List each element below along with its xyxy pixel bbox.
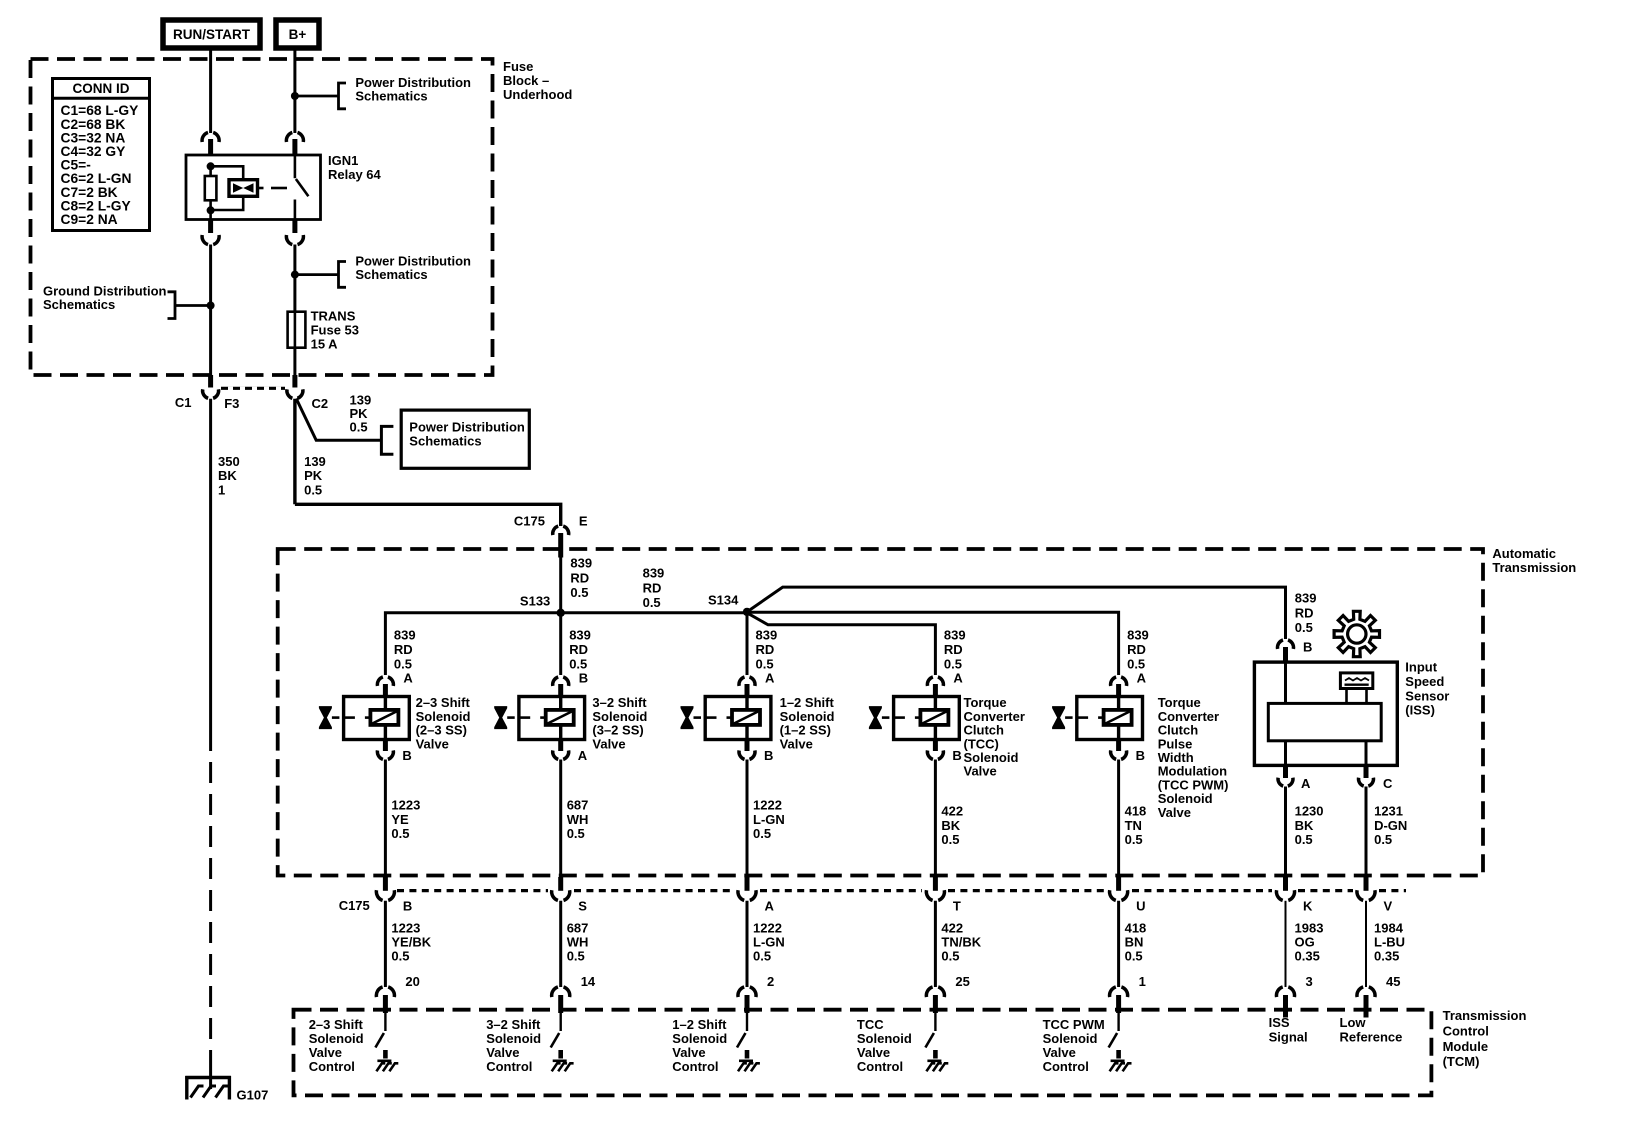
svg-text:CONN ID: CONN ID [73,81,130,96]
valve symbol 3-2 shift solenoid valve [519,697,585,740]
svg-text:B: B [403,898,412,913]
svg-text:RD: RD [643,580,662,595]
svg-text:Input: Input [1405,660,1437,675]
wire into TCM pin 20 [384,901,387,987]
reference bracket power distribution 2 [339,262,347,288]
node ground distribution tap [207,302,215,310]
svg-text:Valve: Valve [309,1045,342,1060]
connector TCM pin 20 [376,987,382,997]
svg-text:Underhood: Underhood [503,87,572,102]
svg-text:0.5: 0.5 [569,657,587,672]
svg-text:C: C [1383,776,1393,791]
wire solenoid feed bus [385,613,747,675]
svg-text:Solenoid: Solenoid [309,1031,364,1046]
svg-text:418: 418 [1125,804,1147,819]
svg-text:Valve: Valve [780,736,813,751]
gear icon [1334,611,1379,656]
terminal B+ [276,20,319,48]
wire branch to power distribution box [296,399,381,441]
svg-text:BK: BK [941,818,960,833]
wire B inside ISS [1284,662,1287,703]
connector pin A (top) of TCC PWM solenoid valve [1111,677,1117,686]
connector TCM pin 25 [926,987,932,997]
wire S134 down to 1-2 solenoid [746,613,749,675]
connector pin A (top) of TCC solenoid valve [927,677,933,686]
CONN ID table [53,79,150,231]
svg-text:BN: BN [1125,935,1144,950]
svg-text:3–2 Shift: 3–2 Shift [486,1017,541,1032]
svg-text:Control: Control [486,1059,532,1074]
dotted connector line C1-C2 [221,387,285,390]
svg-text:Low: Low [1340,1015,1367,1030]
svg-text:1–2 Shift: 1–2 Shift [672,1017,727,1032]
connector C2 terminal [287,389,293,398]
wire ISS pin A [1284,741,1287,766]
input speed sensor ISS box [1254,662,1397,765]
wire into TCM pin 2 [746,901,749,987]
svg-text:Valve: Valve [857,1045,890,1060]
connector pin A (bottom) of 3-2 shift solenoid valve [558,740,563,752]
wire below 1-2 shift solenoid valve [746,760,749,878]
power distribution schematics box [401,410,529,468]
wire into TCM pin 45 [1365,901,1367,987]
terminal RUN/START [163,20,260,48]
svg-text:3: 3 [1306,974,1313,989]
wire S134 to TCC solenoid [747,613,935,675]
svg-text:B+: B+ [289,27,307,42]
svg-text:1: 1 [1139,974,1146,989]
svg-text:1222: 1222 [753,921,782,936]
svg-text:BK: BK [1295,818,1314,833]
svg-text:0.35: 0.35 [1295,948,1320,963]
connector C1 terminal [203,389,209,398]
valve symbol 2-3 shift solenoid valve [344,697,410,740]
svg-text:687: 687 [567,921,589,936]
svg-text:Module: Module [1443,1039,1489,1054]
svg-text:ISS: ISS [1269,1015,1290,1030]
connector C1 stub [208,375,213,388]
svg-text:0.5: 0.5 [944,657,962,672]
TCM driver switch 2 [746,1013,748,1031]
TCM driver switch 20 [384,1013,386,1031]
svg-text:Schematics: Schematics [355,88,427,103]
wire B+ feed [293,48,296,133]
connector TCM pin 45 [1357,987,1363,997]
svg-text:F3: F3 [224,396,239,411]
connector TCM pin 14 [552,987,558,997]
svg-text:B: B [952,748,961,763]
svg-text:Solenoid: Solenoid [486,1031,541,1046]
ground G107 [185,1076,231,1079]
coil of TCC solenoid valve [920,710,948,725]
svg-text:25: 25 [955,974,969,989]
svg-text:V: V [1384,898,1393,913]
reference bracket power distribution 3 [381,426,393,454]
node power distribution tap 2 [291,271,299,279]
connector C2 stub [292,375,297,388]
svg-text:839: 839 [570,556,592,571]
valve symbol TCC solenoid valve [894,697,960,740]
svg-text:Sensor: Sensor [1405,688,1449,703]
wire fuse to C2 [293,348,296,375]
svg-text:B: B [1303,640,1312,655]
svg-text:RD: RD [1295,605,1314,620]
svg-text:839: 839 [756,628,778,643]
svg-text:A: A [578,748,588,763]
svg-text:S134: S134 [708,593,739,608]
svg-text:A: A [1137,671,1147,686]
fuse block dashed box [31,59,493,375]
relay coil (bowtie) element [229,180,258,197]
svg-text:S: S [578,898,587,913]
connector C175 terminal A [745,877,750,891]
svg-text:839: 839 [944,628,966,643]
connector TCM pin 1 [1110,987,1116,997]
svg-text:0.5: 0.5 [1295,620,1313,635]
svg-text:Control: Control [672,1059,718,1074]
svg-text:0.5: 0.5 [1295,832,1313,847]
svg-text:1231: 1231 [1374,804,1403,819]
wire RUN/START feed [209,48,212,133]
coil of 1-2 shift solenoid valve [732,710,760,725]
svg-text:Schematics: Schematics [355,267,427,282]
svg-text:Valve: Valve [1158,805,1191,820]
wire ISS C down [1365,787,1368,878]
svg-text:C1: C1 [175,395,192,410]
wire 139 PK from C2 [293,399,296,505]
wire coil branch bottom [211,196,244,210]
TCM driver switch 1 [1117,1013,1119,1031]
svg-text:1: 1 [218,482,225,497]
svg-text:C9=2 NA: C9=2 NA [61,212,118,227]
svg-text:E: E [579,514,588,529]
svg-text:0.5: 0.5 [643,595,661,610]
svg-text:0.5: 0.5 [941,832,959,847]
svg-text:K: K [1303,898,1313,913]
automatic transmission dashed box [278,549,1483,876]
wire below TCC PWM solenoid valve [1117,760,1120,878]
svg-text:Solenoid: Solenoid [857,1031,912,1046]
TCM pin 3 stub [1283,1013,1288,1018]
svg-text:0.5: 0.5 [1374,832,1392,847]
svg-text:Valve: Valve [592,736,625,751]
connector pin C of input speed sensor [1358,778,1363,786]
svg-text:Fuse 53: Fuse 53 [311,323,359,338]
connector terminal relay left (out) [202,235,208,245]
svg-text:YE: YE [391,812,409,827]
wire E to S133 [559,558,562,613]
wire coil branch top [211,166,244,179]
ground chassis TCM 1 [1111,1060,1125,1063]
connector pin B of input speed sensor [1277,640,1283,649]
connector pin B (bottom) of 2-3 shift solenoid valve [383,740,388,752]
wire 139 PK to C175 E [295,504,561,526]
connector TCM pin 3 [1276,987,1282,997]
connector pin B (bottom) of TCC solenoid valve [933,740,938,752]
splice S134 [743,608,751,616]
connector C175 terminal U [1116,877,1121,891]
valve symbol 1-2 shift solenoid valve [705,697,771,740]
connector C175 terminal B [383,877,388,891]
svg-text:0.5: 0.5 [1125,948,1143,963]
svg-text:0.5: 0.5 [941,948,959,963]
svg-text:Solenoid: Solenoid [672,1031,727,1046]
TCM driver switch 25 [934,1013,936,1031]
svg-text:PK: PK [304,468,323,483]
ground chassis TCM 20 [377,1060,391,1063]
svg-text:0.5: 0.5 [567,948,585,963]
connector pin A (top) of 2-3 shift solenoid valve [377,677,383,686]
svg-text:0.5: 0.5 [567,826,585,841]
svg-text:45: 45 [1386,974,1400,989]
svg-text:RD: RD [756,642,775,657]
TCM dashed box [294,1010,1432,1096]
svg-text:Valve: Valve [964,764,997,779]
svg-text:2–3 Shift: 2–3 Shift [309,1017,364,1032]
ground chassis TCM 14 [553,1060,567,1063]
svg-text:0.35: 0.35 [1374,948,1399,963]
wire into TCM pin 14 [559,901,562,987]
coil of 3-2 shift solenoid valve [546,710,574,725]
svg-text:C2: C2 [312,396,329,411]
svg-text:1222: 1222 [753,798,782,813]
svg-text:(ISS): (ISS) [1405,703,1435,718]
svg-text:Speed: Speed [1405,674,1444,689]
svg-text:WH: WH [567,935,589,950]
svg-text:Control: Control [309,1059,355,1074]
svg-text:0.5: 0.5 [391,948,409,963]
svg-text:422: 422 [941,804,963,819]
svg-text:839: 839 [643,566,665,581]
wire below TCC solenoid valve [934,760,937,878]
svg-text:RUN/START: RUN/START [173,27,251,42]
wire 350 BK 1 run [209,399,212,730]
resistor relay coil shunt [209,166,212,176]
svg-text:Transmission: Transmission [1443,1008,1527,1023]
svg-text:Transmission: Transmission [1492,560,1576,575]
svg-text:B: B [764,748,773,763]
svg-text:0.5: 0.5 [570,585,588,600]
svg-text:RD: RD [570,570,589,585]
wire S133 down to 3-2 solenoid [559,613,562,675]
wire into TCM pin 1 [1117,901,1120,987]
svg-text:Block –: Block – [503,73,549,88]
svg-text:Power Distribution: Power Distribution [409,420,525,435]
svg-text:0.5: 0.5 [391,826,409,841]
wire ISS A down [1284,787,1287,878]
connector pin B (bottom) of TCC PWM solenoid valve [1116,740,1121,752]
svg-text:839: 839 [569,628,591,643]
svg-text:A: A [953,671,963,686]
wire into TCM pin 25 [934,901,937,987]
svg-text:Reference: Reference [1340,1030,1403,1045]
svg-text:BK: BK [218,468,237,483]
wire S134 to ISS [747,587,1286,639]
wire relay right out [292,220,297,234]
svg-text:687: 687 [567,798,589,813]
connector C175 terminal T [933,877,938,891]
coil of 2-3 shift solenoid valve [370,710,398,725]
svg-text:839: 839 [394,628,416,643]
svg-text:D-GN: D-GN [1374,818,1407,833]
svg-text:TCC: TCC [857,1017,884,1032]
svg-text:14: 14 [581,974,596,989]
coil of TCC PWM solenoid valve [1104,710,1132,725]
svg-text:0.5: 0.5 [1127,657,1145,672]
connector C175 E terminal [553,526,559,535]
svg-text:839: 839 [1295,591,1317,606]
svg-text:0.5: 0.5 [753,948,771,963]
svg-text:L-GN: L-GN [753,812,785,827]
connector pin B (bottom) of 1-2 shift solenoid valve [745,740,750,752]
ground chassis TCM 2 [739,1060,753,1063]
svg-text:Fuse: Fuse [503,59,533,74]
svg-text:1984: 1984 [1374,921,1404,936]
svg-text:Control: Control [857,1059,903,1074]
svg-text:Control: Control [1043,1059,1089,1074]
svg-text:RD: RD [394,642,413,657]
svg-text:RD: RD [944,642,963,657]
svg-text:B: B [1136,748,1145,763]
connector C175 terminal V [1364,877,1369,891]
splice S133 [557,609,565,617]
wire into fuse [293,275,296,312]
svg-text:G107: G107 [237,1088,269,1103]
connector terminal relay right (out) [286,235,292,245]
connector pin A of input speed sensor [1278,778,1283,786]
fuse TRANS 53 [288,312,306,348]
svg-text:2: 2 [767,974,774,989]
svg-text:RD: RD [1127,642,1146,657]
svg-text:Valve: Valve [672,1045,705,1060]
svg-text:Valve: Valve [416,736,449,751]
wire 350 BK upper [209,245,212,306]
relay IGN1 box [186,155,321,220]
ground chassis TCM 25 [927,1060,941,1063]
svg-text:A: A [1301,776,1311,791]
svg-text:1223: 1223 [391,921,420,936]
svg-text:TN: TN [1125,818,1142,833]
svg-text:B: B [402,748,411,763]
valve symbol TCC PWM solenoid valve [1077,697,1143,740]
svg-text:350: 350 [218,454,240,469]
svg-text:20: 20 [405,974,419,989]
svg-text:Control: Control [1443,1024,1489,1039]
svg-text:RD: RD [569,642,588,657]
connector TCM pin 2 [738,987,744,997]
wire ISS pin C [1365,741,1368,766]
svg-text:A: A [403,671,413,686]
connector C175 terminal K [1283,877,1288,891]
wire into TCM pin 3 [1285,901,1287,987]
svg-text:U: U [1136,898,1145,913]
svg-text:Schematics: Schematics [409,434,481,449]
connector C175 terminal S [558,877,563,891]
svg-text:139: 139 [304,454,326,469]
svg-text:418: 418 [1125,921,1147,936]
wire S134 to TCC PWM solenoid [747,612,1119,675]
svg-text:0.5: 0.5 [753,826,771,841]
node relay coil top [207,162,215,170]
ISS pickup element [1340,673,1372,689]
wire to power distribution reference [295,95,339,98]
svg-text:A: A [765,898,775,913]
wire relay left out [209,210,212,219]
svg-text:0.5: 0.5 [394,657,412,672]
svg-text:839: 839 [1127,628,1149,643]
svg-text:Schematics: Schematics [43,297,115,312]
svg-text:L-GN: L-GN [753,935,785,950]
svg-text:B: B [579,671,588,686]
svg-text:TRANS: TRANS [311,309,356,324]
svg-text:0.5: 0.5 [350,420,368,435]
TCM driver switch 14 [560,1013,562,1031]
svg-text:1983: 1983 [1295,921,1324,936]
node relay coil bottom [207,206,215,214]
svg-text:Valve: Valve [1043,1045,1076,1060]
connector terminal fuse block right (in) [286,132,292,142]
svg-text:A: A [765,671,775,686]
svg-text:0.5: 0.5 [1125,832,1143,847]
svg-text:Valve: Valve [486,1045,519,1060]
svg-text:IGN1: IGN1 [328,153,358,168]
node B+ / power distribution tap [291,92,299,100]
svg-text:C175: C175 [339,898,370,913]
svg-text:Relay 64: Relay 64 [328,167,382,182]
connector pin B (top) of 3-2 shift solenoid valve [553,677,559,686]
wire to ground distribution reference [175,304,211,307]
svg-text:Signal: Signal [1269,1030,1308,1045]
connector terminal fuse block left (in) [202,132,208,142]
TCM pin 45 stub [1364,1013,1369,1018]
svg-text:TCC PWM: TCC PWM [1043,1017,1105,1032]
wire below 2-3 shift solenoid valve [384,760,387,878]
svg-text:0.5: 0.5 [304,482,322,497]
wire below 3-2 shift solenoid valve [559,760,562,878]
svg-text:0.5: 0.5 [756,657,774,672]
svg-text:15 A: 15 A [311,336,339,351]
svg-text:C175: C175 [514,514,545,529]
dotted connector line C175 row [397,889,548,892]
wire coil to switch (dashed link) [258,187,264,190]
reference bracket power distribution 1 [339,83,347,109]
svg-text:L-BU: L-BU [1374,935,1405,950]
reference bracket ground distribution [168,292,176,319]
connector pin A (top) of 1-2 shift solenoid valve [739,677,745,686]
svg-text:YE/BK: YE/BK [391,935,431,950]
relay switch blade [294,156,297,178]
svg-text:422: 422 [941,921,963,936]
wire to power distribution reference 2 [295,273,339,276]
svg-text:Solenoid: Solenoid [1043,1031,1098,1046]
svg-text:OG: OG [1295,935,1315,950]
svg-text:1230: 1230 [1295,804,1324,819]
svg-text:1223: 1223 [391,798,420,813]
svg-text:WH: WH [567,812,589,827]
svg-text:S133: S133 [520,594,550,609]
ISS inner element box [1268,703,1381,740]
svg-text:T: T [953,898,961,913]
svg-text:(TCM): (TCM) [1443,1054,1480,1069]
svg-text:TN/BK: TN/BK [941,935,981,950]
